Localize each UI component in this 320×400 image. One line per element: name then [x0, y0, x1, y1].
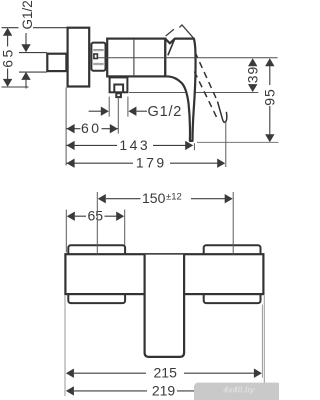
dim 65 arrow down: [3, 79, 12, 87]
svg-text:65: 65: [0, 47, 16, 68]
dim 179: [66, 162, 224, 164]
center column (body+handle front): [145, 255, 185, 357]
dim 143: [66, 144, 190, 146]
leader arrow up (union bottom): [21, 72, 30, 80]
dim 150 extension lines (cross the plates): [96, 192, 98, 254]
svg-text:39: 39: [245, 66, 261, 84]
dim 95 (right): [269, 64, 271, 136]
bottom extension lines: [64, 296, 66, 397]
svg-text:4x40.by: 4x40.by: [222, 384, 255, 394]
dim 39 (right): [248, 58, 257, 66]
connection nut: [91, 43, 105, 71]
svg-text:215: 215: [154, 365, 178, 381]
svg-text:G1/2: G1/2: [148, 104, 183, 120]
raised handle thin outline: [166, 29, 174, 36]
dim 219: [66, 386, 74, 395]
centerline: [98, 57, 278, 59]
dim 65 extension lines: [65, 210, 67, 253]
dim 215: [66, 369, 74, 378]
outlet G1/2 dim row: [89, 110, 101, 112]
line at union bottom: [19, 71, 47, 73]
dim 65 row: [67, 212, 75, 221]
svg-text:±12: ±12: [166, 192, 182, 203]
line at union top: [19, 52, 47, 54]
svg-text:150: 150: [142, 190, 166, 206]
left extension line (wall plane): [65, 88, 67, 166]
escutcheon (side): [68, 28, 90, 87]
outlet inner: [114, 85, 123, 93]
lower outlet housing: [110, 77, 128, 92]
outlet extension lines: [108, 97, 110, 117]
wall union block: [47, 54, 66, 71]
svg-text:143: 143: [119, 137, 150, 153]
dim 150 row: [98, 194, 106, 203]
svg-text:G1/2: G1/2: [20, 0, 35, 29]
lever front edge (closed): [168, 39, 175, 56]
svg-text:219: 219: [152, 382, 176, 398]
G1/2 leader arrow down: [25, 33, 27, 45]
dim 65 arrow up: [3, 28, 12, 36]
body seam: [133, 40, 135, 76]
extension line bottom (escutcheon bottom, y=87): [2, 86, 29, 88]
dim 60: [66, 128, 118, 130]
body bar (front): [65, 254, 263, 294]
outlet nub: [116, 93, 121, 97]
extension line top (escutcheon top, y=27.7): [2, 27, 67, 29]
39 bottom extension line (behind lever): [129, 92, 258, 94]
watermark: [194, 383, 281, 400]
dashed lever (swung position): [195, 52, 217, 100]
svg-text:95: 95: [262, 88, 278, 106]
escutcheon plates (front): [68, 245, 125, 259]
95 bottom extension line: [197, 141, 279, 143]
svg-text:60: 60: [81, 120, 102, 136]
svg-text:65: 65: [88, 208, 104, 224]
mixer body (side): [107, 39, 165, 77]
handle lever (solid): [165, 39, 195, 141]
dim 65 vertical line: [7, 29, 9, 86]
svg-text:179: 179: [136, 155, 167, 171]
